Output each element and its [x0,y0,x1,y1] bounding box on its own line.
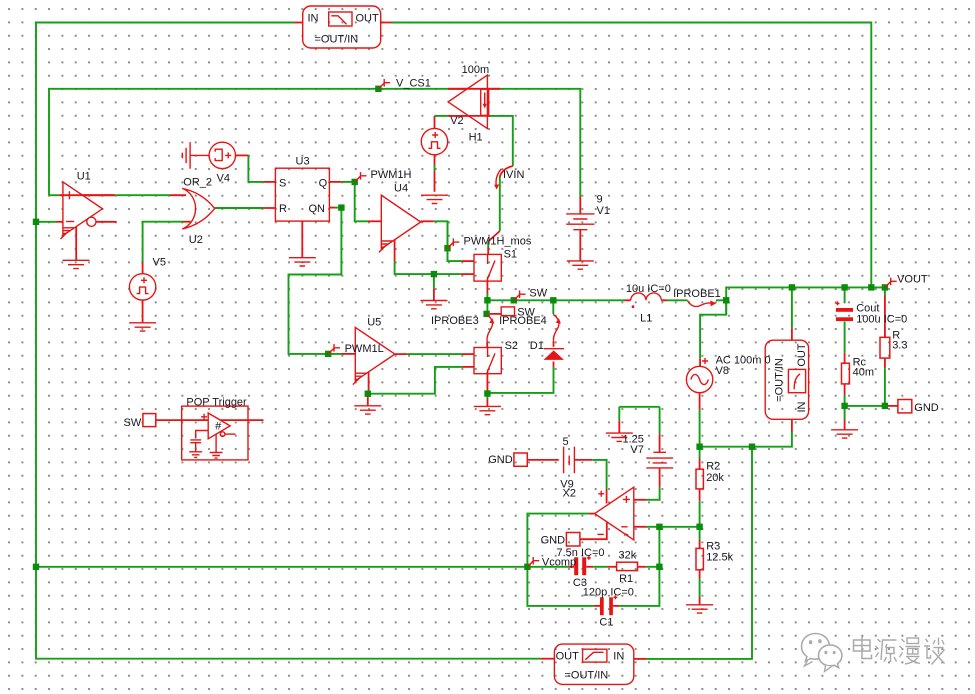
junction SW at S1 [484,297,490,303]
svg-text:GND: GND [541,535,566,547]
ground left of V7 [606,433,633,441]
junction PWM1H [352,179,358,185]
svg-text:7.5n IC=0: 7.5n IC=0 [557,547,605,559]
block3 text [556,651,625,682]
junction SW flag [511,297,517,303]
svg-text:IN: IN [613,651,624,663]
junction R2 R3 tap [696,524,702,530]
junction IPROBE1 node [723,297,729,303]
wire C1 right to vertical [613,605,619,607]
ground below V5 [129,323,156,331]
IPROBE4 arrow [553,315,561,341]
junction SW at D1 branch [550,297,556,303]
AC source V8 [686,358,712,393]
or gate U2 [182,188,214,229]
battery V1 [566,214,594,230]
junction R bottom [882,403,888,409]
wire V1 bottom pin [579,230,581,261]
ground below U5 [354,406,381,414]
IVIN probe arrow [494,169,501,190]
wire U1 minus input [36,221,64,223]
svg-text:3.3: 3.3 [892,340,907,352]
wire IPROBE1 node up to VOUT rail [726,287,885,314]
battery V7 [646,452,673,468]
net flag Vcomp [527,557,539,567]
svg-text:12.5k: 12.5k [706,552,733,564]
svg-text:PWM1H: PWM1H [371,169,412,181]
wire U1 output to OR gate U2 [115,194,186,196]
svg-text:V_CS1: V_CS1 [396,78,431,90]
SR latch U3 [275,168,329,221]
svg-text:S2: S2 [505,340,518,352]
IPROBE3 arrow [487,315,495,342]
wire V7 to battery [659,407,661,453]
wire left frame (Vcomp feedback loop) [36,23,540,659]
switch S1 [474,254,501,281]
wire H1 lower pin to V2 [435,116,513,166]
watermark text tan [924,638,945,665]
battery V9 [564,447,575,474]
wire ground branch at U4 bottom line [433,274,435,300]
watermark wechat logo [802,634,842,668]
ground below S2 [474,406,501,414]
wire V9 to opamp top supply pin [574,460,606,504]
svg-text:GND: GND [488,454,513,466]
svg-text:IN: IN [796,401,808,412]
svg-text:D1: D1 [530,340,544,352]
svg-text:100u IC=0: 100u IC=0 [856,314,907,326]
svg-text:32k: 32k [619,550,637,562]
wire R load branch [884,287,886,406]
svg-text:10u IC=0: 10u IC=0 [626,283,671,295]
ground below U3 [289,258,316,266]
svg-text:X2: X2 [563,488,576,500]
wire probe box SW stub [490,313,501,315]
svg-text:U4: U4 [394,183,408,195]
svg-text:U5: U5 [367,317,381,329]
svg-text:POP Trigger: POP Trigger [186,397,247,409]
junction rail VOUT [882,284,888,290]
wire S2 bottom pin [486,374,488,394]
svg-text:IN: IN [308,13,319,25]
svg-text:#: # [215,421,222,433]
resistor R1 [617,562,638,570]
svg-text:20k: 20k [706,472,724,484]
wire block1 right pin to right frame [381,23,872,288]
svg-text:L1: L1 [640,313,652,325]
wire IPROBE1 node to V8 [700,300,726,366]
wire U3 QN output [329,207,341,209]
watermark text yuan [876,639,897,662]
svg-text:OR_2: OR_2 [183,176,212,188]
wire block1 left pin [294,22,303,24]
wire Vcomp node to C3 [527,566,574,568]
svg-text:V2: V2 [450,115,463,127]
buffer U4 [379,195,421,252]
junction PWM1L [325,351,331,357]
wire C3 to R1 [586,566,616,568]
watermark text dian [854,637,872,659]
svg-text:5: 5 [563,436,569,448]
svg-text:OUT: OUT [556,651,580,663]
wire V5 to U2 lower input [143,222,191,323]
wire feedback row to opamp minus [634,526,700,528]
svg-text:SW: SW [529,288,547,300]
svg-text:V5: V5 [153,257,166,269]
net flag VOUT [885,278,897,288]
junction rail frame [868,284,874,290]
junction rail block2 [789,284,795,290]
wire V2 bottom to ground [434,155,436,192]
pulse source V5 [129,274,155,300]
svg-text:QN: QN [309,203,326,215]
wire S1 bottom to SW node [486,281,488,300]
junction Vcomp left frame [33,564,39,570]
block2 text [774,343,809,412]
node A text labels [77,64,939,629]
net flag PWM1H_mos [448,238,460,248]
wire bottom frame red stub to block3 [540,658,554,660]
svg-text:100m: 100m [462,64,490,76]
svg-text:V7: V7 [630,444,643,456]
resistor R2 [696,469,703,489]
svg-text:GND: GND [914,402,939,414]
svg-text:SW: SW [124,417,142,429]
ground below U1 [63,260,90,268]
junction Rc bottom [841,403,847,409]
pulse source V2 [421,128,447,154]
wire GND box to V9 battery [527,459,559,461]
svg-text:OUT: OUT [356,13,380,25]
current-sense amp H1 [448,75,500,129]
svg-text:40m: 40m [853,367,874,379]
ground below R3 [686,605,713,613]
svg-text:U3: U3 [296,156,310,168]
svg-text:PWM1L: PWM1L [345,343,384,355]
wire Cout ground stub [844,406,846,430]
junction IPROBE3 tap [483,311,489,317]
buffer U5 [353,327,395,384]
svg-text:U2: U2 [189,234,203,246]
wire U4 bottom pin to S1 minus control [395,240,474,274]
watermark bubble tails [805,660,832,672]
svg-text:R1: R1 [619,573,633,585]
junction U1 minus node [33,219,39,225]
junction block2 bottom [749,444,755,450]
wire block2 node down to bottom block3 [634,447,752,659]
probe box SW [501,307,514,316]
junction PWM1H_mos [444,245,450,251]
svg-text:Q: Q [319,177,328,189]
block2 bode probe right [765,340,808,419]
wire D1 branch from SW rail with IPROBE4 [552,300,554,347]
wire V8 bottom to divider row [699,393,701,447]
capacitor C3 [574,556,591,575]
block1 text [308,13,380,46]
switch S2 [474,348,501,374]
wire S2 node to ground [486,394,488,407]
wire R1 to minus node vertical [638,566,660,568]
junction U4 ground tee [431,271,437,277]
svg-text:R: R [279,203,287,215]
wire H1 output to V1 [448,89,580,214]
wire PWM1H node down to U4 input [355,182,382,221]
resistor R3 [696,548,703,569]
wire V4 to U3 S input [236,155,276,182]
svg-text:=OUT/IN: =OUT/IN [774,358,786,402]
wire U5 output to S2 plus control [395,353,474,355]
wire compensation vertical [619,527,659,606]
wire output ground row [845,405,898,407]
svg-text:9: 9 [597,194,603,206]
wire inductor right to IPROBE1 [667,299,726,301]
svg-text:H1: H1 [469,132,483,144]
GND box output [898,400,912,413]
capacitor Cout [836,301,854,321]
wire U2 output to U3 R input [215,207,276,209]
svg-text:V4: V4 [217,173,230,185]
wire U3 bottom pin [301,221,303,258]
svg-text:=OUT/IN: =OUT/IN [565,670,609,682]
wire U4 output to S1 plus control [421,221,474,261]
junction R1 right [656,564,662,570]
net flag SW [514,291,526,301]
junction rail Cout [841,284,847,290]
wire IVIN jog to S1 top [488,166,513,254]
svg-text:U1: U1 [77,171,91,183]
wire U5 bottom node to ground [367,394,369,406]
svg-text:S1: S1 [504,249,517,261]
junction opamp minus [656,524,662,530]
wire SW terminal box to POP trigger [156,419,264,421]
GND box X2 minus supply [566,533,580,547]
svg-text:IPROBE3: IPROBE3 [431,315,479,327]
svg-text:S: S [279,177,286,189]
wire U1 inverted output stub [96,221,117,223]
junction U5 ground tee [365,391,371,397]
IPROBE1 arrow [688,300,717,306]
wire Cout branch [844,287,846,363]
net flag V_CS1 [378,79,390,89]
resistor R load [880,337,890,358]
junction QN [338,204,344,210]
wire PWM1H_mos node to S1 [447,221,449,261]
wire opamp output to Vcomp node [527,514,594,567]
GND box V9 [514,453,527,466]
svg-text:120p IC=0: 120p IC=0 [583,587,634,599]
ground below Cout [831,430,858,438]
capacitor C1 [600,595,617,615]
wire block2 top pin to VOUT rail [791,287,793,340]
wire V7 bottom to opamp plus [634,468,660,500]
junction Vcomp node [524,564,530,570]
wire V2 top stub [434,116,436,128]
svg-text:V1: V1 [597,205,610,217]
SW terminal box [143,414,156,427]
svg-text:R2: R2 [706,461,720,473]
inductor L1 [625,293,668,308]
block1 bode probe top [303,6,381,48]
svg-text:IVIN: IVIN [503,169,524,181]
net flag PWM1L [328,344,340,354]
wire U1 bottom pin [75,227,77,261]
wire V_CS1 from H1 to U1 plus input [49,89,448,195]
junction V_CS1 [375,86,381,92]
svg-text:OUT: OUT [796,343,808,367]
svg-text:VOUT: VOUT [897,274,928,286]
svg-text:V8: V8 [716,365,729,377]
op-amp U1 comparator [61,182,115,239]
op-amp X2 [595,487,634,540]
junction V8 divider [696,444,702,450]
svg-text:=OUT/IN: =OUT/IN [315,33,359,45]
wire Vcomp node down to C1 row [527,567,600,606]
junction S2 bottom node [484,390,490,396]
wire Rc bottom [844,384,846,406]
svg-text:IPROBE4: IPROBE4 [499,315,547,327]
pulse source V4 [209,142,235,168]
ground below U4 bottom line [420,301,447,309]
block3 bode probe bottom [554,644,633,684]
wire SW rail [487,299,624,301]
wire GND box to opamp bottom supply pin [580,523,607,540]
svg-text:PWM1H_mos: PWM1H_mos [464,236,532,248]
wire U5 bottom pin to S2 minus control [369,367,474,394]
net flag PWM1H [355,172,367,182]
svg-text:IPROBE1: IPROBE1 [673,288,721,300]
resistor Rc [842,363,850,384]
wire U3 Q output to PWM1H node [329,181,354,183]
wire D1 anode to S2 bottom node [487,362,553,393]
wire U1 plus stub (red) [49,194,115,196]
sideways ground at V4 [182,142,209,169]
diode D1 [544,349,565,360]
wire S2 branch from SW rail with IPROBE3 [486,300,488,347]
POP trigger box [182,406,248,460]
ground below V2 [421,195,448,203]
wire V7 top row [619,407,659,433]
wire R2 branch [699,447,701,527]
wire divider top row [700,419,792,446]
watermark text man [900,638,921,664]
wire R3 branch [699,527,701,605]
ground below V1 [567,261,594,269]
svg-text:C1: C1 [599,617,613,629]
wire Vcomp line to left frame [36,566,527,568]
wire QN to U5 input (PWM1L) [289,208,356,354]
